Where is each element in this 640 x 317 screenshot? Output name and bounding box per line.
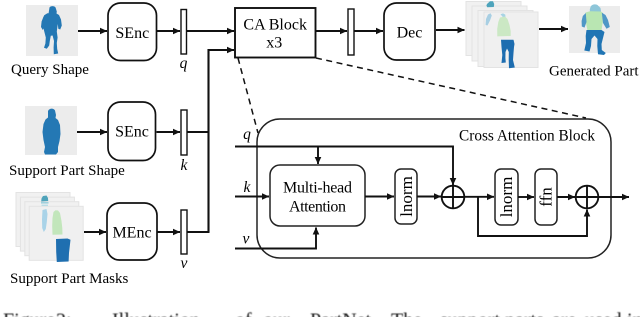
svg-text:Attention: Attention [289,199,346,216]
svg-text:v: v [243,231,250,248]
svg-text:k: k [244,179,252,196]
svg-text:support: support [440,310,500,317]
svg-text:Support Part Shape: Support Part Shape [9,163,125,179]
adder sum1 [442,186,465,209]
svg-text:Illustration: Illustration [112,310,200,317]
block MEnc [107,203,157,260]
wire lnorm1 to sum1 [417,196,441,198]
caption (clipped at bottom) [3,310,640,317]
svg-text:are: are [552,310,577,317]
wire mid feature to Dec [354,30,383,32]
wire MHA to lnorm1 [365,196,394,198]
svg-text:Cross Attention Block: Cross Attention Block [459,128,595,145]
svg-text:used: used [585,310,622,317]
block SEnc (support) [108,102,156,161]
wire output [598,196,629,198]
adder sum2 [576,186,599,209]
block ffn [535,169,557,225]
output image stack [466,1,538,68]
wire SEnc to q [157,30,181,32]
wire image to SEnc [78,30,107,32]
svg-text:SEnc: SEnc [115,124,149,141]
svg-text:The: The [391,310,422,317]
wire v input to MHA bottom [235,228,316,249]
dashed zoom line right [316,58,586,118]
block lnorm1 [395,169,417,224]
block Multi-head Attention [270,165,365,226]
svg-text:our: our [263,310,290,317]
wire CA block to mid feature [316,30,348,32]
svg-text:lnorm: lnorm [397,176,416,217]
wire output stack to generated part [539,28,568,30]
wire lnorm2 to ffn [518,196,534,198]
feature q rect [181,10,187,55]
wire sum1 to lnorm2 [464,196,494,198]
svg-text:CA Block: CA Block [243,17,307,34]
wire masks to MEnc [84,231,106,233]
wire q input line [235,147,453,186]
wire q to CA block [187,30,235,32]
support part masks stack [16,193,83,263]
wire q branch to MHA top [317,147,319,165]
trunk wire kv to CA block [209,50,235,232]
svg-text:x3: x3 [266,35,282,52]
svg-text:2:: 2: [56,310,72,317]
cross attention block container [257,119,611,258]
svg-text:q: q [180,55,188,72]
wire ffn to sum2 [557,196,575,198]
wire k to trunk [187,131,210,133]
block lnorm2 [495,169,518,225]
mid feature rect [348,9,354,55]
wire image to SEnc2 [77,131,107,133]
svg-text:MEnc: MEnc [112,225,151,242]
svg-text:Dec: Dec [397,25,423,42]
svg-text:parts: parts [505,310,544,317]
svg-text:k: k [181,157,189,174]
support part shape image [25,106,77,155]
svg-text:q: q [243,126,251,143]
svg-text:SEnc: SEnc [115,25,149,42]
svg-text:ffn: ffn [537,187,556,207]
query shape image [26,5,78,56]
svg-text:PartNet.: PartNet. [310,310,376,317]
svg-text:lnorm: lnorm [497,177,516,218]
wire SEnc2 to k [157,131,181,133]
feature v rect [181,210,187,254]
block CA Block x3 [235,8,316,58]
svg-text:Figure: Figure [3,310,55,317]
wire v to trunk [187,231,210,233]
wire MEnc to v [157,231,180,233]
dashed zoom line left [238,58,258,133]
svg-text:v: v [181,255,188,272]
wire skip connection to sum2 [478,197,587,236]
svg-text:Generated Part: Generated Part [549,64,639,80]
wire k input to MHA [235,196,269,198]
svg-text:Support Part Masks: Support Part Masks [10,271,129,287]
block SEnc (query) [108,3,157,61]
svg-text:Query Shape: Query Shape [11,62,89,78]
wire Dec to output stack [436,29,465,31]
svg-text:of: of [235,310,252,317]
svg-text:in: in [627,310,640,317]
feature k rect [181,110,187,155]
block Dec [384,3,435,60]
generated part image [569,4,620,55]
svg-text:Multi-head: Multi-head [283,180,352,197]
